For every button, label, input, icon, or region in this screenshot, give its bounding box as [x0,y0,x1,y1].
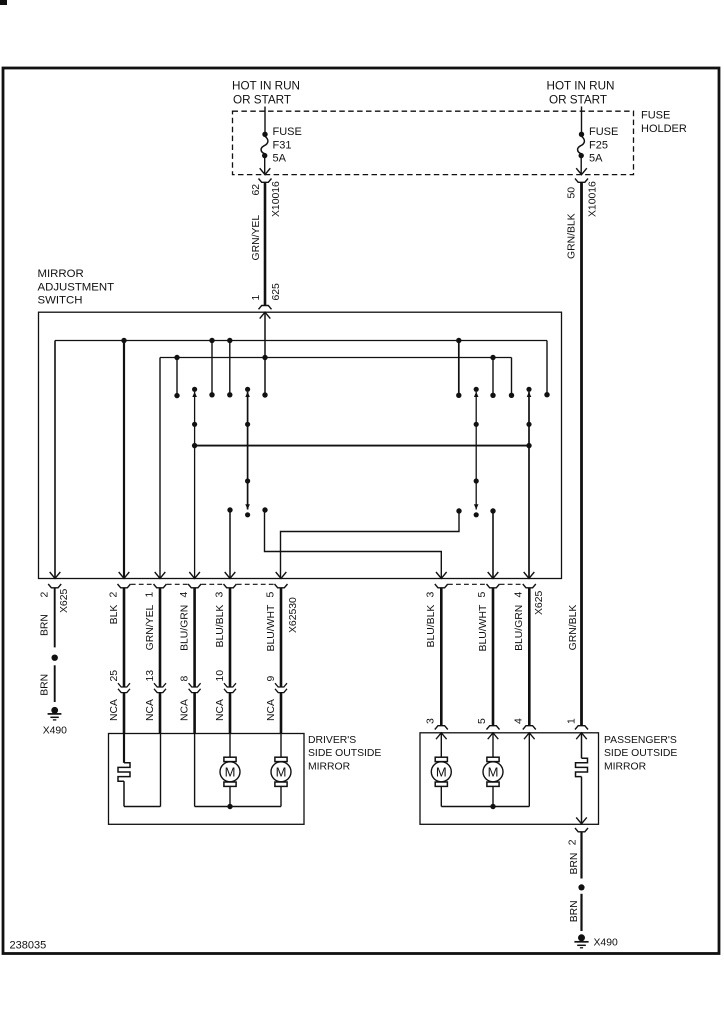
svg-text:10: 10 [215,670,226,682]
connector X10016 pin 62 (left) [251,168,282,217]
svg-text:BLU/GRN: BLU/GRN [514,605,525,651]
svg-text:13: 13 [145,670,156,682]
wire BLU/BLK (to driver mirror) [215,588,230,687]
svg-text:5: 5 [265,592,276,598]
svg-text:OR START: OR START [233,94,291,107]
svg-text:NCA: NCA [180,699,191,721]
wire: switch feed input pin 1 [260,312,271,397]
svg-text:F31: F31 [273,140,292,152]
ground X490 (right) [574,934,618,948]
svg-text:NCA: NCA [145,699,156,721]
svg-text:X62530: X62530 [288,597,299,633]
svg-text:M: M [225,765,236,780]
connector X625 pin 5 (right) [477,584,499,598]
svg-text:DRIVER'S: DRIVER'S [308,735,356,746]
wire: motor common (passenger) [441,733,534,809]
connector X625 pin 4 (right) [514,584,545,615]
wire BLU/BLK (to passenger mirror) [426,588,441,726]
label: FUSE HOLDER [641,109,687,135]
wire segment [193,693,196,734]
motor M up/down (driver) [220,734,240,807]
svg-text:FUSE: FUSE [641,109,670,121]
svg-text:9: 9 [266,676,277,682]
wire: left feed leg to X625 pin 2 [50,341,61,579]
splice (right) [578,884,584,890]
svg-text:BRN: BRN [569,900,580,922]
node: HOT IN RUN OR START (left) [232,80,300,107]
contact stub B1 [456,338,461,398]
svg-text:1: 1 [566,718,577,724]
svg-text:25: 25 [109,670,120,682]
wire: crossover to pin 5 left [276,508,462,578]
svg-text:MIRROR: MIRROR [604,761,647,772]
svg-text:OR START: OR START [549,94,607,107]
svg-text:BLU/BLK: BLU/BLK [215,605,226,648]
wire BRN to ground (right) [569,894,582,931]
contact stub A1 [174,355,179,399]
mirror heater element (driver) [118,734,130,807]
wire GRN/YEL [251,182,265,305]
svg-text:5: 5 [477,718,488,724]
wire BRN (switch ground) [40,588,55,648]
svg-text:NCA: NCA [109,699,120,721]
wire: motor common (driver) [195,734,281,809]
svg-text:4: 4 [179,592,190,598]
svg-text:SWITCH: SWITCH [38,295,83,307]
svg-text:1: 1 [144,592,155,598]
svg-text:MIRROR: MIRROR [38,268,84,280]
wire BRN to ground [40,665,55,702]
svg-text:X490: X490 [43,726,67,737]
svg-text:F25: F25 [589,140,608,152]
connector X625 pin 2 (left BRN) [40,584,71,613]
svg-text:HOT IN RUN: HOT IN RUN [232,80,300,93]
fuse F31 5A [261,126,302,174]
svg-text:4: 4 [514,718,525,724]
svg-text:ADJUSTMENT: ADJUSTMENT [38,281,115,293]
contact stub B2 [490,355,495,398]
wire segment [123,693,126,734]
svg-text:5: 5 [477,592,488,598]
wire: bus line 1 [55,340,547,342]
svg-text:X10016: X10016 [587,181,598,217]
connector pin 4 (passenger mirror) [514,718,536,730]
motor M up/down (passenger) [431,733,451,807]
wire GRN/BLK (main run) [566,182,581,725]
contact stub B4 [544,341,549,398]
svg-text:50: 50 [566,187,577,199]
connector 625 pin 1 [251,283,282,309]
fuse F25 5A [578,126,619,174]
connector X62530 dashed row [131,583,275,585]
connector X62530 pin 2 [108,584,130,598]
svg-text:MIRROR: MIRROR [308,761,351,772]
passenger's side outside mirror (box) [420,733,677,825]
svg-text:BLU/WHT: BLU/WHT [266,604,277,651]
connector X625 dashed row (right) [448,583,523,585]
svg-text:PASSENGER'S: PASSENGER'S [604,735,677,746]
node: HOT IN RUN OR START (right) [547,80,615,107]
svg-text:X625: X625 [59,589,70,613]
fuse holder enclosure (dashed) [233,111,634,174]
wire segment [280,693,283,734]
contact stub B3 [509,358,514,398]
svg-text:5A: 5A [589,153,603,165]
svg-text:BRN: BRN [569,853,580,875]
connector pin 1 (passenger mirror GRN/BLK) [566,718,588,730]
connector pin 2 (below passenger mirror) [567,828,588,845]
connector X62530 pin 4 [179,584,201,598]
connector pin 3 (passenger mirror) [426,718,448,730]
svg-text:M: M [276,765,287,780]
switch pole D [524,387,535,579]
wire BRN (passenger ground) [569,832,582,879]
wire: leg to pin 2 BLK [119,338,130,579]
wire GRN/YEL (to driver mirror) [145,588,160,687]
svg-text:5A: 5A [273,153,287,165]
wire BLU/GRN (to passenger mirror) [514,588,529,726]
switch pole A [189,387,200,579]
svg-text:HOLDER: HOLDER [641,123,687,135]
svg-text:BLU/GRN: BLU/GRN [179,605,190,651]
connector pin 13 / NCA [145,670,166,721]
svg-text:FUSE: FUSE [589,126,618,138]
wire segment [229,693,232,734]
connector X62530 pin 3 [214,584,236,598]
svg-text:625: 625 [271,283,282,301]
wire: right feed to fuse F25 [581,107,583,133]
svg-text:3: 3 [426,592,437,598]
ground X490 (left) [43,707,67,737]
svg-text:GRN/YEL: GRN/YEL [251,215,262,261]
svg-text:BLU/WHT: BLU/WHT [478,604,489,651]
svg-text:HOT IN RUN: HOT IN RUN [547,80,615,93]
svg-text:X625: X625 [534,591,545,615]
svg-text:3: 3 [426,718,437,724]
mirror heater element (passenger) [576,733,588,824]
wire: contact to pin 3 left [225,507,236,578]
svg-text:GRN/YEL: GRN/YEL [145,604,156,650]
wire: crossover to pin 3 right [262,507,446,578]
svg-text:2: 2 [567,839,578,845]
wire: left feed to fuse F31 [264,107,266,133]
driver's side outside mirror (box) [109,734,382,825]
svg-text:BRN: BRN [40,614,51,636]
svg-text:2: 2 [108,592,119,598]
svg-text:4: 4 [514,592,525,598]
svg-text:238035: 238035 [10,940,47,952]
svg-text:GRN/BLK: GRN/BLK [568,605,579,651]
svg-text:NCA: NCA [215,699,226,721]
connector X10016 pin 50 (right) [566,168,598,217]
connector pin 25 / NCA [109,670,130,721]
svg-text:FUSE: FUSE [273,126,302,138]
svg-text:8: 8 [179,676,190,682]
connector pin 5 (passenger mirror) [477,718,499,730]
svg-text:BLK: BLK [109,605,120,625]
svg-text:SIDE OUTSIDE: SIDE OUTSIDE [308,748,381,759]
svg-text:2: 2 [40,592,51,598]
svg-text:X10016: X10016 [271,181,282,217]
svg-text:SIDE OUTSIDE: SIDE OUTSIDE [604,748,677,759]
connector pin 9 / NCA [266,676,287,722]
wire BLU/GRN (to driver mirror) [179,588,194,687]
connector X625 pin 3 (right) [426,584,448,598]
connector X62530 pin 1 [144,584,166,598]
wire: leg to pin 1 GRN/YEL [155,358,166,579]
motor M left/right (passenger) [483,733,503,807]
motor M left/right (driver) [271,734,291,807]
connector pin 10 / NCA [215,670,236,721]
wire BLU/WHT (to passenger mirror) [478,588,493,726]
svg-text:BRN: BRN [40,674,51,696]
wire BLK (to driver mirror) [109,588,124,687]
svg-text:NCA: NCA [266,699,277,721]
svg-text:M: M [436,765,447,780]
wire BLU/WHT (to driver mirror) [266,588,281,687]
mirror adjustment switch (box) [38,268,562,579]
wire segment [159,693,162,734]
svg-text:X490: X490 [594,938,618,949]
connector pin 8 / NCA [179,676,200,722]
wire: bus line 2 [160,357,512,359]
switch pole B [245,387,250,518]
svg-text:1: 1 [251,295,262,301]
contact stub A2 [209,338,214,398]
svg-text:GRN/BLK: GRN/BLK [566,213,577,259]
wire: contact to pin 5 right [488,508,499,578]
svg-text:M: M [488,765,499,780]
svg-text:62: 62 [251,184,262,196]
svg-text:BLU/BLK: BLU/BLK [426,605,437,648]
wire: bus line 3 (cross link) [192,443,532,448]
splice (left) [52,655,58,661]
connector X62530 pin 5 [265,584,299,633]
switch pole C [474,387,479,518]
svg-text:3: 3 [214,592,225,598]
wire: heater return (driver) [124,734,161,807]
contact stub A3 [227,338,232,398]
